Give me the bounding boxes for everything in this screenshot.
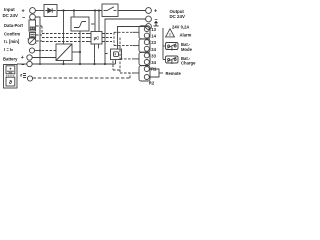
node E (39, 50, 41, 52)
svg-text:ϑ: ϑ (9, 80, 12, 86)
wire stub to fuse (73, 11, 75, 18)
node J (104, 63, 106, 65)
svg-text:33: 33 (151, 53, 156, 58)
svg-text:Input: Input (4, 7, 15, 12)
label Input (3, 7, 27, 21)
wire dashed confirm (36, 34, 42, 36)
svg-text:R1: R1 (151, 66, 157, 71)
label Battery (3, 55, 24, 68)
wire battery plus (32, 57, 56, 59)
node K (39, 63, 41, 65)
node D (98, 9, 100, 11)
svg-text:Battery: Battery (3, 56, 18, 61)
sensor temperature (23, 74, 26, 78)
wire (57, 10, 102, 12)
label Bat Charge (181, 56, 196, 66)
svg-text:23: 23 (151, 40, 156, 45)
node G (79, 51, 81, 53)
wire input minus (35, 17, 40, 64)
potentiometer P1 (28, 37, 37, 45)
wire uC pin left 1 (88, 33, 91, 35)
wire battery box link (17, 63, 27, 65)
svg-text:+: + (154, 9, 157, 15)
wire fuse bottom drop (79, 31, 81, 64)
svg-text:+: + (22, 8, 25, 14)
svg-text:+: + (21, 55, 24, 61)
terminal 23 (144, 40, 149, 45)
wire dashed pot (36, 40, 42, 42)
converter DC/DC U2 (56, 44, 72, 61)
wire dashed relay vertical 1 (113, 32, 115, 45)
terminal R2 (144, 75, 149, 80)
terminal Input + (30, 8, 36, 14)
wire dashed ctrl 1 (42, 33, 88, 35)
wire aux output (118, 27, 146, 50)
wire dashed relay vertical 2 (119, 38, 121, 74)
svg-text:Alarm: Alarm (180, 33, 192, 38)
terminal Output - (146, 16, 152, 22)
wire uC bottom (94, 44, 96, 64)
wire dashed remote (120, 72, 133, 74)
wire dashed alarm (114, 31, 133, 33)
node B (73, 9, 75, 11)
wire top bus (36, 10, 45, 12)
aux module U3 (111, 49, 122, 60)
op data-port connector J1 (29, 20, 36, 31)
node I (93, 63, 95, 65)
pushbutton Confirm (30, 33, 36, 39)
relay group box 13/14 (139, 26, 150, 39)
terminal R1 (144, 67, 149, 72)
wire dashed bat-charge (120, 58, 133, 60)
svg-text:24: 24 (151, 47, 156, 52)
wire dashed temperature (33, 77, 130, 79)
wire I=In (35, 50, 40, 52)
svg-text:Remote: Remote (166, 71, 182, 76)
terminal 24 (144, 46, 149, 51)
warning triangle alarm (166, 29, 175, 37)
node A (62, 9, 64, 11)
wire uC pin left 2 (88, 37, 91, 39)
svg-text:24V 0,2A: 24V 0,2A (172, 25, 189, 30)
wire uC pin right 2 (102, 37, 112, 39)
battery B1 (4, 65, 18, 89)
svg-text:R2: R2 (149, 80, 155, 85)
wire stub group 1 (133, 31, 139, 33)
terminal Battery + (27, 55, 32, 60)
svg-text:+: + (9, 67, 12, 72)
svg-text:µC: µC (94, 36, 101, 41)
switch S1 (102, 4, 118, 17)
wire output minus (105, 19, 146, 64)
svg-text:DC 24V: DC 24V (3, 13, 18, 18)
wire dashed ctrl 3 (42, 41, 88, 43)
relay group box R1/R2 (139, 66, 150, 81)
wire uC bottom stub (98, 44, 100, 49)
wire uC feed right (98, 11, 100, 32)
contact icon bat-mode (166, 43, 179, 51)
svg-text:Mode: Mode (181, 47, 193, 52)
wire dashed aux link (113, 69, 120, 71)
svg-text:14: 14 (151, 34, 156, 39)
wire dashed I=In to converter (42, 50, 57, 52)
electronic fuse F1 (71, 17, 89, 31)
node C (94, 9, 96, 11)
microcontroller U1 (91, 32, 102, 45)
terminal 33 (144, 53, 149, 58)
svg-text:Charge: Charge (181, 61, 196, 66)
terminal temperature (27, 76, 32, 81)
wire uC pin left 3 (88, 41, 91, 43)
wire uC feed left (94, 11, 96, 32)
wire remote stub (159, 72, 163, 74)
wire (118, 10, 146, 12)
terminal I=In (29, 48, 34, 53)
svg-text:DC 24V: DC 24V (170, 14, 185, 19)
wire converter right (72, 51, 80, 53)
wire dashed aux down (112, 61, 114, 71)
wire stub group 2 (133, 45, 139, 47)
wire remote bracket (149, 69, 159, 77)
wire converter top (63, 11, 65, 45)
svg-text:I = In: I = In (4, 47, 13, 52)
terminal Input - (30, 14, 36, 20)
relay group box 33/34 (139, 52, 150, 65)
wire dashed fuse out (91, 23, 96, 25)
wire stub icon 1 (163, 45, 166, 47)
terminal Output aux (146, 24, 152, 30)
wire stub icon 2 (163, 59, 166, 61)
diode D1 (44, 5, 57, 17)
svg-text:Confirm: Confirm (4, 31, 20, 36)
svg-text:t L [min]: t L [min] (4, 39, 20, 44)
wire dashed bat-mode (114, 45, 133, 47)
wire uC pin right 1 (102, 33, 112, 35)
wire stub group 4 (133, 72, 139, 74)
svg-text:−: − (21, 62, 24, 68)
relay group box 23/24 (139, 39, 150, 52)
terminal 34 (144, 60, 149, 65)
terminal 13 (144, 27, 149, 32)
wire signal rail right (162, 28, 164, 60)
terminal Battery - (27, 61, 32, 66)
node F (62, 63, 64, 65)
wire dashed ctrl 2 (42, 37, 88, 39)
wire dashed uC to aux (105, 53, 109, 55)
terminal Output + (146, 8, 152, 14)
label aux arrow (154, 21, 159, 26)
contact icon bat-charge (166, 56, 179, 64)
wire dashed data-port (36, 25, 42, 27)
svg-text:13: 13 (151, 27, 156, 32)
wire stub group 3 (133, 58, 139, 60)
svg-text:34: 34 (151, 60, 156, 65)
node H (79, 63, 81, 65)
terminal 14 (144, 33, 149, 38)
wire uC pin right 3 (102, 41, 112, 43)
wire dashed ctrl vertical (41, 26, 43, 34)
wire converter bottom (63, 61, 65, 65)
wire dashed temperature up (129, 73, 131, 78)
wire battery bus (32, 63, 115, 65)
label Output (154, 9, 185, 24)
label Bat Mode (181, 42, 193, 52)
svg-text:Data-Port: Data-Port (4, 23, 23, 28)
wire aux bottom (115, 60, 117, 65)
